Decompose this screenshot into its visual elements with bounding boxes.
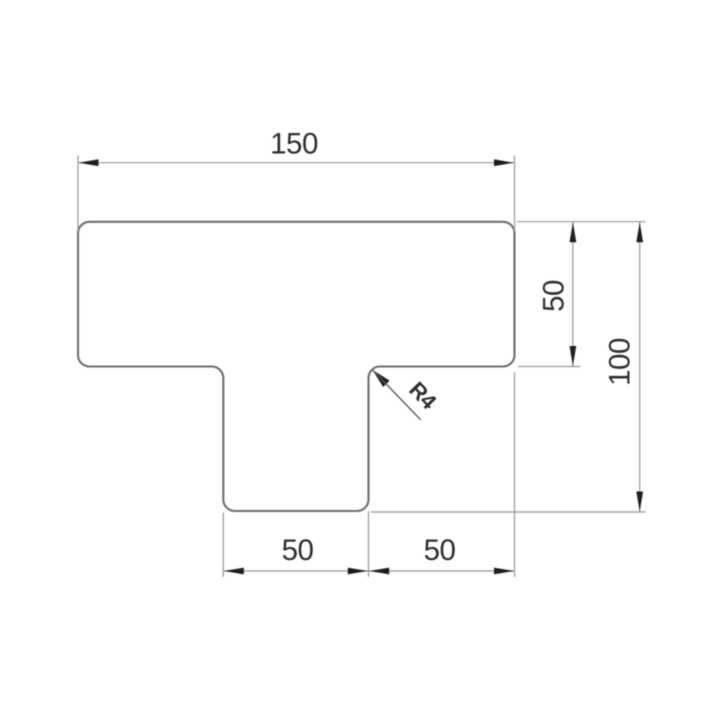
dimension line 150 <box>78 162 515 164</box>
arrowhead 150 right <box>494 159 514 166</box>
svg-text:50: 50 <box>538 280 571 312</box>
arrowhead 50 vertical top <box>570 222 577 242</box>
dimension line bottom 50 50 <box>223 570 514 572</box>
top right extension line <box>517 221 646 223</box>
arrowhead 100 bottom <box>636 492 643 512</box>
middle right extension line <box>518 366 581 368</box>
R4 leader arrow <box>372 370 389 387</box>
bottom extension line at stem left <box>222 513 224 578</box>
R4 leader line <box>374 371 421 420</box>
extension line left of dim 150 <box>77 156 79 232</box>
arrowhead bottom middle pointing left <box>369 568 389 575</box>
svg-text:50: 50 <box>282 534 314 567</box>
svg-text:150: 150 <box>270 128 318 161</box>
arrowhead bottom right <box>494 568 514 575</box>
bottom extension line at bar right <box>514 372 516 577</box>
T-shape part outline <box>78 222 515 511</box>
arrowhead bottom middle pointing right <box>348 568 368 575</box>
arrowhead 150 left <box>79 159 99 166</box>
svg-text:100: 100 <box>604 338 637 386</box>
arrowhead 100 top <box>636 222 643 242</box>
bottom right extension line <box>371 511 646 513</box>
arrowhead bottom left <box>224 568 244 575</box>
arrowhead 50 vertical bottom <box>570 346 577 366</box>
dimension line 50 vertical <box>572 222 574 367</box>
dimension line 100 <box>639 222 641 512</box>
svg-text:50: 50 <box>424 534 456 567</box>
bottom extension line at stem right <box>368 511 370 577</box>
extension line right of dim 150 <box>514 156 516 232</box>
